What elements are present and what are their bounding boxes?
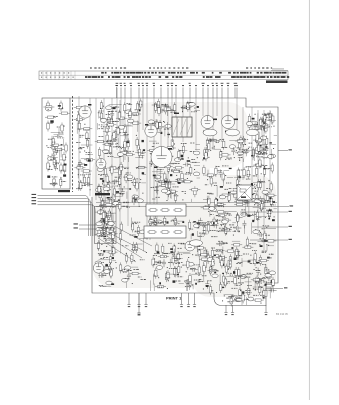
scan shading wash xyxy=(92,102,276,297)
long bottom wire xyxy=(137,293,140,315)
lower left box xyxy=(95,209,118,245)
header strip frame xyxy=(39,71,288,83)
can E1 xyxy=(203,129,217,136)
right rail parts xyxy=(251,113,277,298)
right upper parts xyxy=(202,135,275,162)
between boxes parts xyxy=(148,216,184,228)
tube V1 xyxy=(79,106,91,118)
header strip left cells xyxy=(43,71,75,80)
block X1 xyxy=(237,185,252,200)
long wire A xyxy=(96,202,277,204)
boundary label B xyxy=(95,193,110,195)
header strip row2 text xyxy=(41,76,289,78)
right mid parts xyxy=(201,163,277,235)
right stub y227 xyxy=(252,226,292,227)
right stub y150 xyxy=(278,149,292,150)
can E3 xyxy=(247,129,259,135)
right stub y240 xyxy=(250,239,292,240)
terminal group 3 xyxy=(224,305,234,315)
can E2 xyxy=(226,129,240,136)
center low parts xyxy=(150,243,215,292)
center gap parts xyxy=(188,217,236,240)
tube V8 xyxy=(185,241,195,251)
mid col parts xyxy=(95,110,118,286)
diagonal leads xyxy=(98,225,152,262)
transformer T1 xyxy=(172,113,192,137)
tube V5 xyxy=(222,116,235,129)
terminal group 2 xyxy=(180,293,196,307)
page edge line xyxy=(308,0,310,400)
mid parts xyxy=(95,162,146,212)
terminal group 4 xyxy=(264,305,267,315)
boxed row 1 xyxy=(146,204,186,216)
right low parts xyxy=(208,237,275,300)
PCB outline xyxy=(70,98,278,306)
left wire bundle xyxy=(32,194,96,236)
vertical bus wires xyxy=(79,96,270,255)
col parts xyxy=(74,106,95,191)
left box resistors xyxy=(47,101,67,188)
lower left sparse xyxy=(119,218,148,289)
right stub y212 xyxy=(240,211,292,212)
notch interior parts xyxy=(222,292,264,306)
terminal group 1 xyxy=(127,293,147,307)
dashed bus line xyxy=(72,96,74,192)
tube V4 xyxy=(201,116,214,129)
top right corner parts xyxy=(246,111,276,134)
header strip title text xyxy=(90,67,284,69)
svg-text:B3 310 05: B3 310 05 xyxy=(276,312,288,316)
svg-text:PRINT 1: PRINT 1 xyxy=(166,296,182,301)
tube V3 big xyxy=(151,147,172,168)
center top parts xyxy=(148,119,171,138)
center parts xyxy=(147,137,200,202)
tube V6 xyxy=(96,159,106,169)
header strip row1 text xyxy=(41,72,286,74)
left sub-box xyxy=(42,98,70,189)
can E4 xyxy=(190,240,203,246)
left box label xyxy=(58,190,70,192)
tube labels xyxy=(88,104,238,168)
left wire pair xyxy=(74,223,111,229)
lower left mid xyxy=(96,245,118,278)
lower left module box xyxy=(95,207,117,244)
right stub y288 xyxy=(266,287,287,288)
upper mid parts xyxy=(95,99,146,163)
top band parts xyxy=(152,99,200,116)
boxed row 2 xyxy=(144,226,186,238)
tube V7 xyxy=(93,263,103,273)
long wire B xyxy=(96,205,293,206)
top connector wires xyxy=(116,83,238,240)
left top stub xyxy=(116,85,118,98)
left box parts xyxy=(43,105,70,188)
tube V2 xyxy=(145,125,157,137)
